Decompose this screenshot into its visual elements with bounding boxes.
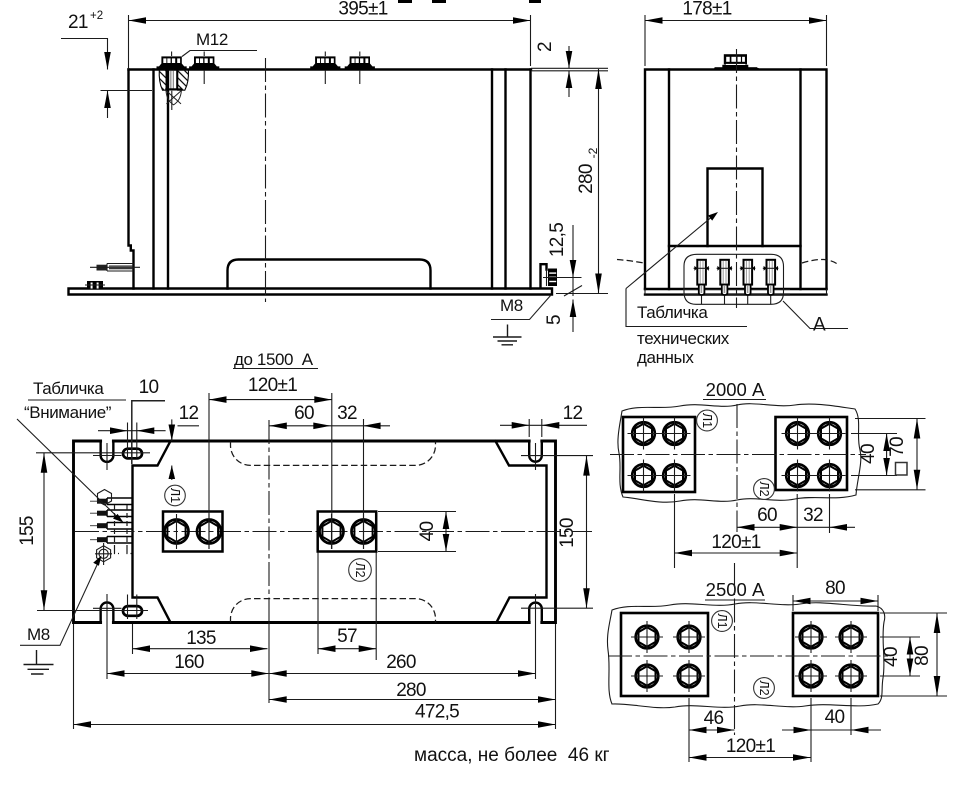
svg-text:40: 40 [825,707,845,728]
svg-text:280: 280 [576,164,597,194]
svg-text:135: 135 [186,628,216,649]
svg-text:70: 70 [887,437,908,457]
svg-text:Л2: Л2 [757,481,771,496]
svg-text:М8: М8 [500,296,523,315]
svg-text:46: 46 [704,708,724,729]
svg-text:Л1: Л1 [168,488,182,503]
svg-text:5: 5 [544,315,565,325]
svg-text:М12: М12 [196,30,228,49]
svg-text:155: 155 [17,516,38,546]
svg-text:Л2: Л2 [353,562,367,577]
svg-text:2000 А: 2000 А [706,379,765,400]
svg-text:120±1: 120±1 [726,736,775,757]
svg-text:Табличка: Табличка [33,379,104,398]
svg-text:395±1: 395±1 [338,0,387,20]
svg-text:178±1: 178±1 [682,0,731,20]
svg-text:60: 60 [294,403,314,424]
svg-text:260: 260 [386,652,416,673]
svg-text:80: 80 [825,578,845,599]
svg-text:60: 60 [757,505,777,526]
svg-text:М8: М8 [27,625,50,644]
svg-text:150: 150 [557,518,578,548]
svg-text:120±1: 120±1 [248,375,297,396]
svg-text:масса, не более 46 кг: масса, не более 46 кг [414,745,610,766]
svg-text:40: 40 [881,647,902,667]
svg-text:40: 40 [417,522,438,542]
svg-text:160: 160 [174,652,204,673]
svg-text:280: 280 [396,680,426,701]
svg-text:до 1500 А: до 1500 А [234,350,314,369]
svg-text:-2: -2 [586,147,600,158]
svg-text:57: 57 [337,626,357,647]
svg-text:10: 10 [139,377,159,398]
svg-text:2500 А: 2500 А [706,579,765,600]
svg-text:21: 21 [68,12,88,33]
svg-text:+2: +2 [90,10,103,22]
svg-text:472,5: 472,5 [415,702,459,723]
svg-text:данных: данных [637,348,694,367]
svg-text:12: 12 [179,403,199,424]
svg-text:технических: технических [637,329,730,348]
svg-text:12,5: 12,5 [547,223,568,257]
svg-text:Л1: Л1 [715,613,729,628]
svg-text:12: 12 [563,403,583,424]
svg-text:“Внимание”: “Внимание” [24,403,112,422]
svg-text:40: 40 [858,444,879,464]
svg-text:Л2: Л2 [757,680,771,695]
svg-text:2: 2 [535,42,556,52]
svg-text:120±1: 120±1 [711,532,760,553]
svg-text:Табличка: Табличка [637,303,708,322]
svg-text:A: A [813,315,826,336]
svg-text:32: 32 [337,403,357,424]
svg-text:80: 80 [912,646,933,666]
svg-text:32: 32 [803,505,823,526]
svg-text:Л1: Л1 [700,413,714,428]
